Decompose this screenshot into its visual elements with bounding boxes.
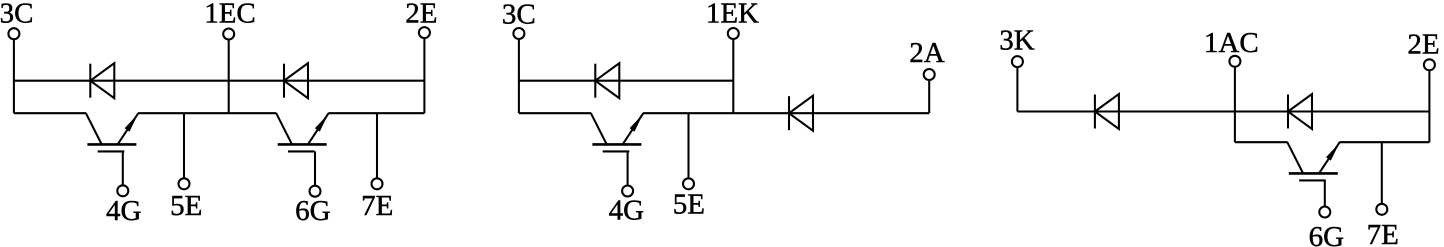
svg-text:2A: 2A	[909, 37, 945, 69]
svg-text:6G: 6G	[295, 195, 331, 227]
svg-text:2E: 2E	[1407, 29, 1439, 61]
svg-text:5E: 5E	[673, 189, 705, 221]
svg-text:7E: 7E	[1367, 219, 1399, 247]
svg-text:1EK: 1EK	[706, 0, 759, 29]
svg-text:3K: 3K	[999, 25, 1035, 57]
svg-text:7E: 7E	[361, 190, 393, 222]
svg-text:4G: 4G	[106, 195, 142, 227]
svg-text:5E: 5E	[170, 190, 202, 222]
svg-text:6G: 6G	[1309, 221, 1345, 247]
svg-text:3C: 3C	[0, 0, 33, 29]
svg-text:2E: 2E	[405, 0, 437, 29]
svg-text:3C: 3C	[502, 0, 536, 30]
svg-text:4G: 4G	[609, 195, 645, 227]
svg-text:1EC: 1EC	[204, 0, 256, 29]
svg-text:1AC: 1AC	[1204, 27, 1259, 59]
